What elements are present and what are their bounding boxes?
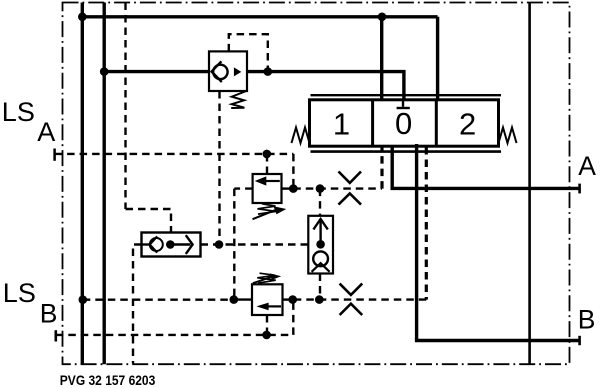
node: junction pilot rejoin: [264, 67, 273, 76]
wire: combination valve bottom port dashed: [319, 274, 321, 300]
check valve CV1 body: [209, 51, 247, 91]
valve block line above: [311, 94, 502, 96]
shuttle valve arrow shaft: [170, 243, 190, 245]
wire: vertical rail V2 (P): [102, 3, 105, 365]
relief valve RV1 spring: [258, 204, 277, 214]
valve block line below: [311, 150, 502, 153]
svg-text:B: B: [40, 299, 58, 329]
wire: RV2 left port: [234, 298, 252, 300]
wire: shuttle inlet dashed elbow down to bottom edge: [133, 245, 142, 364]
valve block body: [310, 100, 499, 146]
svg-text:A: A: [578, 151, 596, 181]
svg-text:A: A: [37, 117, 55, 147]
closed port symbol X2 lower: [340, 304, 363, 315]
combination valve arrow shaft: [319, 221, 321, 245]
wire: spool port A pilot dashed up: [380, 147, 383, 189]
wire: work line A elbow: [391, 144, 394, 188]
node: junction B pilot right: [315, 295, 324, 304]
relief valve RV1 adjust arrow: [253, 210, 276, 219]
svg-text:LS: LS: [2, 97, 35, 127]
combination valve CB body: [308, 216, 333, 274]
node: junction B pilot left: [288, 295, 297, 304]
shuttle valve inlet line: [142, 243, 152, 245]
svg-text:LS: LS: [3, 278, 36, 308]
port tick A: [578, 184, 581, 194]
valve block neutral tie mark: [402, 101, 404, 107]
node: junction A pilot left: [289, 184, 298, 193]
svg-text:0: 0: [395, 106, 412, 141]
wire: pilot dashed from top border: [124, 3, 126, 210]
wire: dashed cross line x234 down: [233, 189, 235, 300]
combination valve ball: [313, 251, 328, 266]
relief valve RV2 flow arrow: [267, 305, 281, 307]
wire: shuttle output dashed right: [201, 243, 309, 245]
valve block divider right: [435, 100, 438, 146]
valve block spring left: [292, 128, 310, 144]
wire: LS B dashed from rail: [83, 299, 234, 301]
relief valve RV2 body: [252, 284, 283, 315]
wire: RV1 right port: [282, 187, 294, 189]
node: junction LS A pilot: [263, 150, 272, 159]
node: junction inside combination valve: [316, 240, 325, 249]
relief valve RV1 body: [253, 174, 282, 203]
wire: spool top port right: [436, 17, 439, 101]
port tick B: [578, 336, 581, 345]
wire: B gauge dashed elbow up: [292, 300, 294, 335]
node: junction RV2 drain: [262, 331, 271, 340]
node: junction A pilot right: [316, 184, 325, 193]
wire: vertical tank line V3: [528, 3, 531, 365]
closed port symbol X1 lower: [339, 193, 362, 204]
valve block divider left: [371, 100, 374, 146]
wire: spool port B pilot dashed: [425, 147, 428, 300]
check valve CV1 ball: [213, 65, 227, 79]
valve block spring right: [499, 128, 517, 144]
relief valve RV2 adjust arrow: [253, 277, 272, 283]
wire: LS A dashed elbow down: [292, 154, 294, 189]
wire: CV1 drain dashed down: [218, 91, 220, 242]
wire: P supply horizontal: [82, 15, 437, 18]
combination valve seat: [312, 263, 330, 272]
wire: elbow down into spool centre port: [402, 70, 405, 101]
check valve CV1 arrow: [234, 67, 241, 76]
check valve CV1 pilot dashed loop: [229, 34, 268, 71]
svg-text:1: 1: [333, 106, 350, 141]
shuttle valve seat: [150, 236, 158, 252]
check valve CV1 spring: [231, 91, 246, 108]
wire: work line B elbow: [415, 144, 418, 341]
wire: A pilot dashed run: [293, 187, 382, 189]
relief valve RV1 pilot dashed: [266, 154, 268, 174]
relief valve RV2 spring: [257, 273, 275, 283]
shuttle valve arrow chevron: [186, 235, 193, 254]
node: junction B pilot cross: [230, 295, 239, 304]
wire: RV1 left port dashed: [234, 187, 252, 189]
wire: combination valve top port dashed: [319, 189, 321, 216]
wire: pilot dashed elbow to shuttle: [126, 209, 172, 233]
relief valve RV1 flow arrow: [265, 180, 280, 182]
node: junction LS B on rail: [79, 295, 88, 304]
node: junction V2 check line: [100, 67, 109, 76]
node: junction P rail: [78, 12, 87, 21]
closed port symbol X1 upper: [339, 172, 362, 183]
svg-text:PVG 32 157 6203: PVG 32 157 6203: [60, 373, 156, 388]
wire: RV2 right port: [283, 298, 293, 300]
check valve CV1 seat: [212, 61, 222, 82]
wire: LS A dashed horizontal: [55, 153, 294, 155]
svg-text:B: B: [578, 305, 596, 335]
port tick B gauge: [54, 330, 57, 341]
closed port symbol X2 upper: [340, 284, 363, 295]
svg-text:2: 2: [459, 106, 476, 141]
combination valve arrow chevron: [313, 219, 327, 230]
enclosure border (dash-dot): [63, 3, 570, 365]
shuttle valve ball: [150, 238, 163, 251]
wire: B gauge dashed horizontal: [56, 334, 293, 336]
node: junction shuttle output: [215, 240, 224, 249]
wire: check valve supply horizontal: [104, 70, 405, 73]
node: junction P to spool port: [378, 12, 387, 21]
node: junction inside shuttle: [166, 240, 175, 249]
wire: B pilot dashed run: [293, 298, 427, 300]
port tick LS A: [53, 149, 56, 161]
wire: vertical rail V1 (LS): [81, 3, 84, 365]
shuttle valve body: [142, 233, 201, 257]
wire: RV2 bottom port dashed: [266, 315, 268, 335]
wire: spool top port from P: [380, 17, 383, 101]
